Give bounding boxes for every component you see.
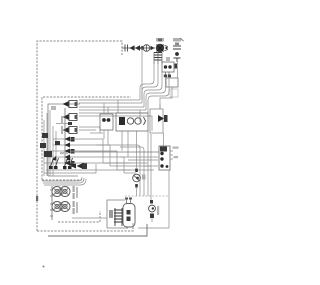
plug P1: power cord line bbox=[122, 47, 155, 49]
connector: spark module plug bbox=[160, 62, 178, 109]
wire: console bottom bundle bbox=[42, 177, 86, 185]
enclosure: oven liner dashed bbox=[125, 195, 168, 197]
wire: right return loop bbox=[138, 170, 169, 228]
node: stray dot bbox=[43, 266, 45, 268]
switch: thermostat blobs at border bbox=[40, 133, 60, 157]
igniter pair 1: burner circles bbox=[52, 187, 70, 197]
relay K1: contact box bbox=[162, 62, 177, 77]
wire: switch row stubs bbox=[44, 139, 96, 163]
motor M1: cooling fan bbox=[156, 38, 168, 52]
wire: from plug corner down bbox=[140, 48, 142, 100]
faint box: mounting plate bbox=[170, 89, 178, 97]
inductor L1: fan winding bbox=[154, 53, 162, 65]
clock A1: timer block bbox=[116, 113, 148, 131]
wire: feed to bake element bbox=[72, 217, 107, 219]
igniter pair 2: burner circles bbox=[52, 202, 70, 212]
wire: mid grid bbox=[84, 133, 154, 196]
spark module SP1: top chain bbox=[166, 38, 184, 62]
label: tiny text above selector bbox=[60, 152, 68, 154]
tick: left border mark bbox=[36, 196, 38, 201]
connector: splice bbox=[140, 46, 145, 50]
strain relief: circle bbox=[143, 45, 150, 52]
enclosure: range cabinet dashed border bbox=[37, 41, 133, 231]
connector: console terminal 2 bbox=[63, 114, 78, 121]
relay K2: dual contact box bbox=[100, 114, 113, 130]
wire: console harness bundle bbox=[79, 100, 152, 133]
wire: under selector bbox=[44, 170, 88, 173]
connector: harness junction bbox=[71, 163, 88, 169]
contact: small row between bbox=[56, 122, 72, 125]
contact: switch row 1 bbox=[65, 137, 75, 166]
connector: clock plug bbox=[150, 104, 168, 133]
terminal block TB1 bbox=[159, 146, 179, 170]
switch S5: selector contacts bbox=[50, 158, 73, 168]
wire: bottom neutral run bbox=[48, 224, 147, 236]
wire: switch column rails bbox=[44, 110, 56, 176]
wire: igniter feed rail bbox=[50, 186, 53, 220]
label: vertical text smudge bbox=[61, 116, 63, 124]
wire: column spine bbox=[64, 108, 66, 170]
connector: male terminal pair bbox=[130, 45, 141, 51]
valve: rounded body bbox=[123, 204, 135, 228]
wire: clock plug drops bbox=[70, 133, 164, 166]
connector: console terminal 3 bbox=[63, 127, 78, 134]
enclosure: control console dashed bbox=[42, 97, 131, 180]
pin stubs on top bbox=[127, 198, 131, 204]
element: ladder resistor bbox=[115, 208, 122, 226]
switch: door switch + lamp bbox=[149, 200, 160, 222]
connector: cord end bracket bbox=[125, 45, 128, 52]
connector: console terminal 1 bbox=[63, 101, 78, 108]
wire: drops into boxes bbox=[104, 130, 151, 202]
enclosure: burner box dashed bbox=[58, 211, 100, 222]
label: burner 2 vertical text bbox=[73, 201, 75, 207]
wire: harness corners to left bundle bbox=[140, 64, 169, 113]
contact: selector arrow tips bbox=[49, 156, 72, 169]
box: control board outline bbox=[48, 104, 80, 176]
connector: terminal at fan bbox=[151, 46, 155, 51]
element E1: bake element assembly bbox=[107, 198, 135, 229]
lamp DS1: oven lamp bbox=[133, 169, 146, 197]
label: board id bbox=[51, 106, 56, 110]
label: burner 1 vertical text bbox=[73, 186, 75, 192]
